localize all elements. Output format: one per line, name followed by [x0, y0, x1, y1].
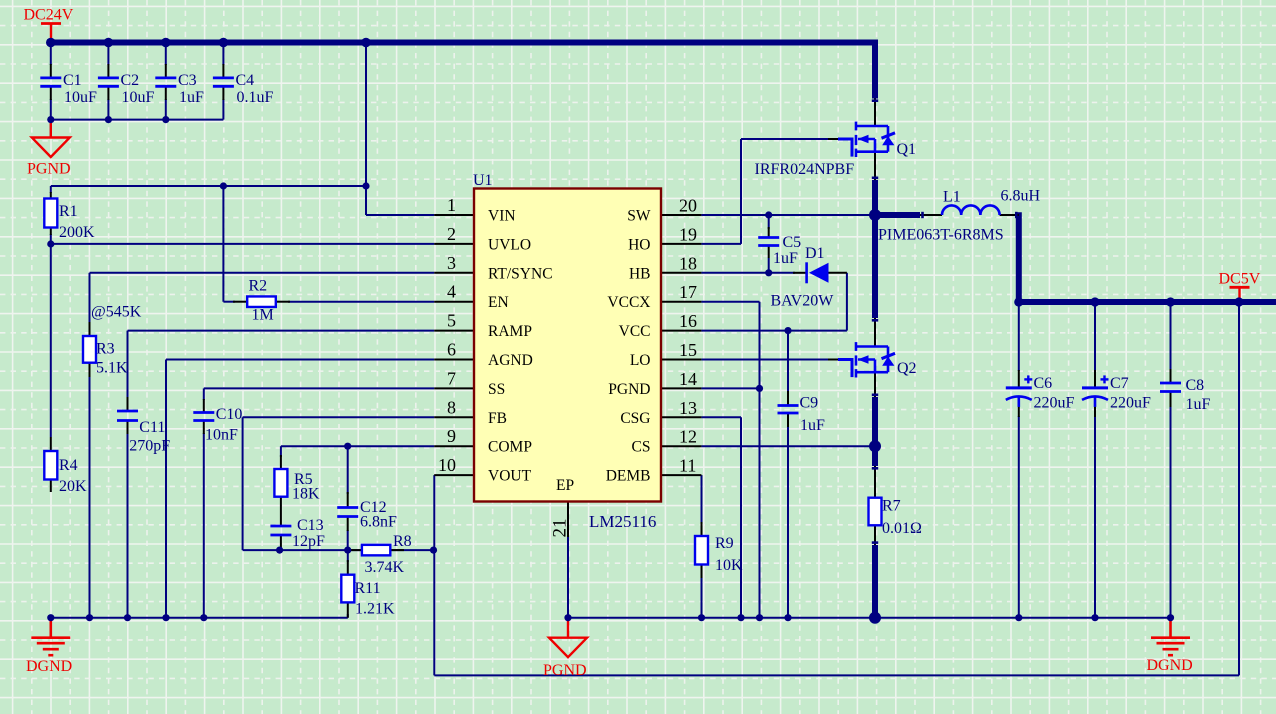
svg-text:0.1uF: 0.1uF	[237, 89, 274, 106]
svg-text:R7: R7	[882, 498, 901, 515]
svg-text:LM25116: LM25116	[589, 512, 656, 531]
svg-text:AGND: AGND	[488, 352, 533, 369]
svg-text:10uF: 10uF	[122, 89, 155, 106]
svg-text:R9: R9	[715, 535, 734, 552]
svg-text:18: 18	[679, 253, 697, 273]
svg-text:6: 6	[447, 340, 456, 360]
svg-text:16: 16	[679, 311, 697, 331]
svg-text:L1: L1	[943, 189, 961, 206]
svg-text:HO: HO	[628, 236, 650, 253]
svg-text:R11: R11	[355, 580, 381, 597]
svg-text:6.8nF: 6.8nF	[360, 514, 397, 531]
svg-text:DGND: DGND	[26, 658, 72, 675]
svg-text:C6: C6	[1034, 375, 1053, 392]
svg-text:SS: SS	[488, 381, 505, 398]
svg-text:12: 12	[679, 427, 697, 447]
svg-text:13: 13	[679, 398, 697, 418]
svg-text:9: 9	[447, 426, 456, 446]
svg-text:1: 1	[447, 195, 456, 215]
svg-text:R3: R3	[96, 341, 115, 358]
svg-text:15: 15	[679, 340, 697, 360]
svg-text:5: 5	[447, 311, 456, 331]
svg-text:220uF: 220uF	[1110, 395, 1151, 412]
svg-text:1uF: 1uF	[1186, 396, 1211, 413]
svg-text:HB: HB	[629, 265, 651, 282]
svg-text:SW: SW	[627, 208, 651, 225]
svg-text:R2: R2	[249, 278, 268, 295]
svg-text:7: 7	[447, 368, 456, 388]
svg-text:DC5V: DC5V	[1219, 271, 1261, 288]
svg-text:10K: 10K	[715, 557, 743, 574]
svg-text:4: 4	[447, 282, 456, 302]
svg-text:C11: C11	[139, 419, 165, 436]
svg-text:11: 11	[679, 456, 696, 476]
svg-text:Q1: Q1	[897, 141, 917, 158]
svg-text:10: 10	[438, 455, 456, 475]
svg-text:C13: C13	[297, 517, 324, 534]
svg-text:R4: R4	[59, 457, 78, 474]
svg-text:14: 14	[679, 369, 697, 389]
svg-text:20K: 20K	[59, 478, 87, 495]
svg-text:PIME063T-6R8MS: PIME063T-6R8MS	[878, 227, 1004, 244]
svg-text:BAV20W: BAV20W	[771, 293, 835, 310]
svg-text:C10: C10	[216, 406, 243, 423]
svg-text:C2: C2	[121, 72, 140, 89]
svg-text:EP: EP	[556, 477, 574, 494]
svg-text:C3: C3	[178, 72, 197, 89]
svg-text:EN: EN	[488, 294, 509, 311]
svg-text:R1: R1	[59, 203, 78, 220]
svg-text:21: 21	[550, 519, 571, 538]
svg-text:C1: C1	[63, 72, 82, 89]
svg-text:10uF: 10uF	[64, 89, 97, 106]
svg-text:1uF: 1uF	[800, 417, 825, 434]
svg-text:17: 17	[679, 282, 697, 302]
svg-text:220uF: 220uF	[1034, 395, 1075, 412]
svg-text:DGND: DGND	[1147, 657, 1193, 674]
svg-text:C4: C4	[236, 72, 255, 89]
svg-text:1M: 1M	[252, 307, 274, 324]
svg-text:19: 19	[679, 224, 697, 244]
svg-text:COMP: COMP	[488, 439, 532, 456]
svg-text:10nF: 10nF	[205, 427, 238, 444]
svg-text:3.74K: 3.74K	[365, 559, 405, 576]
svg-text:VOUT: VOUT	[488, 468, 532, 485]
svg-text:20: 20	[679, 196, 697, 216]
svg-text:DEMB: DEMB	[606, 468, 651, 485]
svg-text:D1: D1	[805, 245, 825, 262]
svg-text:C7: C7	[1110, 375, 1129, 392]
svg-text:3: 3	[447, 253, 456, 273]
svg-text:6.8uH: 6.8uH	[1001, 188, 1041, 205]
svg-text:U1: U1	[473, 172, 493, 189]
svg-text:1uF: 1uF	[179, 89, 204, 106]
svg-text:UVLO: UVLO	[488, 236, 531, 253]
svg-text:12pF: 12pF	[292, 533, 325, 550]
svg-text:PGND: PGND	[608, 381, 650, 398]
svg-text:RAMP: RAMP	[488, 323, 532, 340]
svg-text:200K: 200K	[59, 224, 95, 241]
svg-text:C5: C5	[783, 234, 802, 251]
svg-text:CSG: CSG	[620, 410, 650, 427]
svg-text:270pF: 270pF	[129, 438, 170, 455]
svg-text:PGND: PGND	[27, 161, 71, 178]
svg-text:2: 2	[447, 224, 456, 244]
svg-text:RT/SYNC: RT/SYNC	[488, 265, 553, 282]
svg-text:DC24V: DC24V	[24, 7, 74, 24]
svg-text:PGND: PGND	[543, 662, 587, 679]
svg-text:C9: C9	[800, 395, 819, 412]
svg-text:R8: R8	[393, 533, 412, 550]
svg-text:1.21K: 1.21K	[355, 601, 395, 618]
svg-text:C8: C8	[1186, 377, 1205, 394]
svg-text:Q2: Q2	[897, 360, 917, 377]
svg-text:8: 8	[447, 397, 456, 417]
svg-text:LO: LO	[630, 352, 651, 369]
svg-text:VCCX: VCCX	[607, 294, 650, 311]
svg-text:IRFR024NPBF: IRFR024NPBF	[755, 161, 855, 178]
svg-text:5.1K: 5.1K	[96, 360, 128, 377]
svg-text:VCC: VCC	[619, 323, 651, 340]
svg-text:FB: FB	[488, 410, 507, 427]
svg-text:CS: CS	[632, 439, 651, 456]
svg-text:1uF: 1uF	[773, 250, 798, 267]
svg-text:@545K: @545K	[91, 304, 142, 321]
svg-text:VIN: VIN	[488, 208, 516, 225]
svg-text:0.01Ω: 0.01Ω	[882, 520, 922, 537]
svg-text:18K: 18K	[292, 486, 320, 503]
